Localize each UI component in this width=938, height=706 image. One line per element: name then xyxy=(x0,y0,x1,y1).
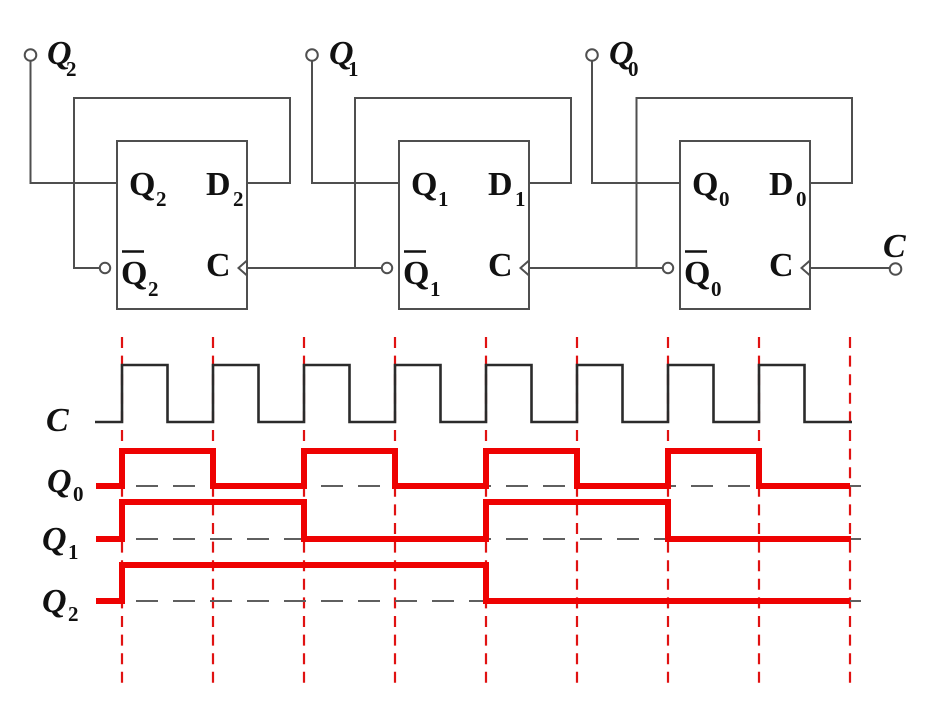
node C clock input terminal circle xyxy=(890,263,902,275)
svg-text:C: C xyxy=(46,402,69,439)
Q1 low-level dashed reference line xyxy=(122,538,868,540)
label Q1 at terminal xyxy=(329,35,359,81)
flip-flop U1 body (Q2 stage) xyxy=(117,141,247,309)
wire U3 feedback Q0-bar to D0 (left rise, top, right drop) xyxy=(637,98,853,268)
U3 inverted output bubble Q0-bar xyxy=(663,263,673,273)
svg-text:C: C xyxy=(769,247,794,284)
pin label Q1-bar inside U2 (with overbar) xyxy=(403,252,441,302)
U1 inverted output bubble Q2-bar xyxy=(100,263,110,273)
pin label Q0 inside U3 xyxy=(692,166,730,211)
svg-text:2: 2 xyxy=(233,187,244,211)
svg-text:0: 0 xyxy=(796,187,807,211)
svg-text:D: D xyxy=(206,166,231,203)
node Q0 output terminal circle xyxy=(586,49,598,61)
svg-text:Q: Q xyxy=(121,255,147,292)
U1 clock edge triangle xyxy=(239,261,248,276)
svg-text:C: C xyxy=(883,228,906,265)
waveform Q2 (red) xyxy=(96,565,850,601)
svg-text:Q: Q xyxy=(692,166,718,203)
flip-flop U2 body (Q1 stage) xyxy=(399,141,529,309)
label C for clock waveform row xyxy=(46,402,69,439)
svg-text:D: D xyxy=(769,166,794,203)
svg-text:1: 1 xyxy=(348,57,359,81)
pin label Q1 inside U2 xyxy=(411,166,449,211)
wire U2 C pin to U3 Q0-bar bubble xyxy=(529,267,663,269)
Q0 low-level dashed reference line xyxy=(122,485,868,487)
wire U1 feedback Q2-bar to D2 (left rise, top, right drop) xyxy=(74,98,290,268)
pin label C inside U1 xyxy=(206,247,231,284)
svg-text:Q: Q xyxy=(411,166,437,203)
node Q2 output terminal circle xyxy=(25,49,37,61)
svg-text:0: 0 xyxy=(628,57,639,81)
svg-text:Q: Q xyxy=(42,583,67,620)
svg-text:1: 1 xyxy=(68,540,79,564)
svg-text:0: 0 xyxy=(719,187,730,211)
pin label C inside U3 xyxy=(769,247,794,284)
svg-text:1: 1 xyxy=(430,277,441,301)
U2 inverted output bubble Q1-bar xyxy=(382,263,392,273)
svg-text:1: 1 xyxy=(515,187,526,211)
svg-text:C: C xyxy=(488,247,513,284)
svg-text:Q: Q xyxy=(403,255,429,292)
pin label Q2-bar inside U1 (with overbar) xyxy=(121,252,159,302)
timing grid: 9 red dashed clock-edge markers xyxy=(122,337,850,684)
wire Q2 terminal to U1 Q pin xyxy=(31,61,118,184)
pin label D1 inside U2 xyxy=(488,166,526,211)
wire U3 C pin to clock input terminal xyxy=(810,267,890,269)
waveform Q1 (red) xyxy=(96,502,851,539)
svg-text:Q: Q xyxy=(684,255,710,292)
wire U2 feedback Q1-bar to D1 (left rise, top, right drop) xyxy=(355,98,571,268)
svg-text:0: 0 xyxy=(711,277,722,301)
label Q0 for waveform row xyxy=(47,463,84,506)
svg-text:Q: Q xyxy=(47,463,72,500)
wire Q0 terminal to U3 Q pin xyxy=(592,61,680,184)
label Q0 at terminal xyxy=(609,35,639,81)
svg-text:C: C xyxy=(206,247,231,284)
waveform Q0 (red) xyxy=(96,451,850,486)
pin label Q2 inside U1 xyxy=(129,166,167,211)
U3 clock edge triangle xyxy=(802,261,811,276)
flip-flop U3 body (Q0 stage) xyxy=(680,141,810,309)
svg-text:Q: Q xyxy=(129,166,155,203)
svg-text:2: 2 xyxy=(156,187,167,211)
Q2 low-level dashed reference line xyxy=(122,600,868,602)
label Q1 for waveform row xyxy=(42,521,79,564)
svg-text:2: 2 xyxy=(66,57,77,81)
svg-text:0: 0 xyxy=(73,482,84,506)
label C at clock terminal xyxy=(883,228,906,265)
svg-text:2: 2 xyxy=(148,277,159,301)
pin label Q0-bar inside U3 (with overbar) xyxy=(684,252,722,302)
pin label C inside U2 xyxy=(488,247,513,284)
svg-text:D: D xyxy=(488,166,513,203)
clock waveform C xyxy=(95,365,852,422)
wire Q1 terminal to U2 Q pin xyxy=(312,61,399,184)
wire U1 C pin to U2 Q1-bar bubble xyxy=(247,267,382,269)
node Q1 output terminal circle xyxy=(306,49,318,61)
label Q2 for waveform row xyxy=(42,583,79,626)
svg-text:2: 2 xyxy=(68,602,79,626)
svg-text:Q: Q xyxy=(42,521,67,558)
pin label D0 inside U3 xyxy=(769,166,807,211)
label Q2 at terminal xyxy=(47,35,77,81)
U2 clock edge triangle xyxy=(521,261,530,276)
svg-text:1: 1 xyxy=(438,187,449,211)
pin label D2 inside U1 xyxy=(206,166,244,211)
